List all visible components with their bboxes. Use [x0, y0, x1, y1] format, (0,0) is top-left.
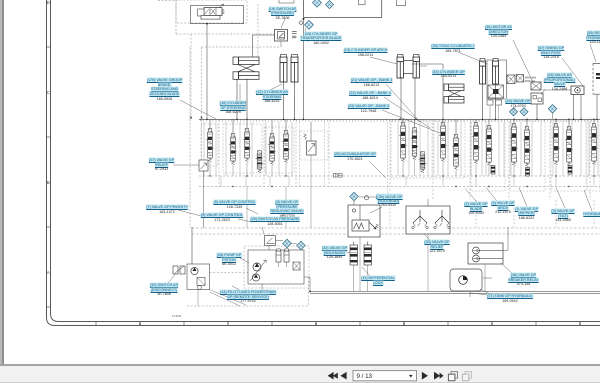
label swing gp 47: [538, 46, 564, 60]
toolbar page number box: [353, 371, 417, 381]
tree valve symbol: [412, 210, 428, 229]
valve spool bank3: [399, 123, 407, 162]
band wire to tank bus: [405, 176, 407, 187]
valve spool bank7 a: [552, 124, 560, 165]
leader label 11: [362, 267, 370, 276]
leader label 12: [270, 84, 282, 90]
motor 36 circle: [575, 87, 581, 93]
frame zone tick bottom: [139, 322, 141, 326]
band wire to tank bus: [220, 176, 222, 187]
oil renewal box partial: [593, 64, 600, 95]
wire down to steering cylinder: [252, 35, 254, 57]
toolbar rotate icon disabled: [462, 372, 471, 381]
hydraulic tank line upper: [310, 290, 600, 292]
pilot bus dashed: [199, 175, 600, 177]
valve 170 solenoid: [198, 9, 205, 16]
valve spool bank4 b: [452, 135, 460, 170]
frame zone tick bottom: [271, 322, 273, 326]
pump circle 1: [253, 263, 261, 271]
wire down to bank4: [442, 64, 444, 119]
label valve gp bank3: [351, 78, 393, 87]
wire motor 36 to bus a: [573, 95, 575, 120]
stub bus to spool: [414, 119, 416, 127]
pump swash arrow: [250, 260, 267, 281]
band internal wire: [460, 122, 462, 176]
lower compensator spool: [491, 166, 495, 175]
stub spool to pilot bus: [285, 163, 287, 176]
section wire to lower bus: [555, 200, 557, 227]
pilot pump: [191, 267, 198, 274]
band wire to tank bus: [288, 176, 290, 187]
band internal wire: [225, 122, 227, 176]
frame zone tick left: [47, 226, 51, 228]
band internal wire: [278, 122, 280, 176]
label valve gp 26v: [377, 195, 402, 200]
bank coupler diamond 2: [520, 108, 528, 116]
pilot dashed vertical b: [201, 47, 203, 160]
arch cylinder center link: [404, 61, 414, 74]
label valve as 28: [544, 73, 576, 92]
leader label 7: [178, 210, 205, 217]
valve section dashed enclosure: [587, 121, 600, 191]
valve bank section divider dashed: [295, 119, 297, 187]
valve spool small bank1: [256, 151, 264, 173]
label cylinder gp 34: [432, 70, 465, 79]
leader label 23: [382, 110, 440, 133]
valve spool bank1 c: [243, 129, 251, 162]
differential lock spool: [350, 242, 358, 292]
band internal wire: [481, 122, 483, 176]
stub bus to spool: [209, 119, 211, 128]
band internal wire: [562, 122, 564, 176]
valve section dashed enclosure: [391, 121, 432, 178]
wire coupler to coupler2: [291, 243, 297, 244]
small coupler: [299, 21, 303, 25]
stub spool to pilot bus: [455, 170, 457, 176]
leader label 14: [232, 286, 240, 290]
label switch as pressure 19: [269, 7, 297, 21]
frame zone tick bottom: [95, 322, 97, 326]
leader label 37b: [470, 293, 498, 296]
frame zone tick bottom: [227, 322, 229, 326]
wire band to lower bus b: [285, 187, 287, 229]
band internal wire: [580, 122, 582, 176]
frame zone tick left: [47, 46, 51, 48]
stub bus to spool: [402, 119, 404, 122]
dashed pilot line to switch lower: [202, 46, 282, 48]
viewer background left strip: [0, 0, 2, 366]
stub spool to pilot bus: [475, 164, 477, 176]
stub spool to pilot bus: [526, 167, 528, 176]
valve spool bank4: [439, 123, 447, 162]
lower pilot bus dashed a: [192, 227, 600, 229]
valve spool bank3 small: [419, 152, 427, 173]
pilot comp b above bus: [496, 100, 502, 105]
wire steering cyl to bus: [236, 80, 238, 120]
quick coupler diamond 2: [326, 1, 334, 9]
leader label 2: [465, 189, 477, 203]
main pressure bus: [199, 118, 600, 120]
pilot dashed down: [308, 277, 310, 306]
orifice block: [517, 75, 524, 83]
leader label 15: [305, 28, 308, 42]
section wire to lower bus: [593, 200, 595, 227]
toolbar next-page button: [422, 372, 428, 380]
frame zone tick bottom: [183, 322, 185, 326]
valve section dashed enclosure: [471, 121, 505, 191]
label cylinder gp 10: [220, 101, 246, 115]
band internal wire: [239, 122, 241, 176]
lower compensator spool: [526, 168, 530, 177]
band wire to tank bus: [245, 176, 247, 187]
label valve gp 27: [149, 158, 174, 172]
leader label 47: [562, 58, 583, 86]
valve as proportional 28 body: [531, 93, 543, 104]
switch 19 inner: [278, 32, 285, 40]
leader label 36: [513, 40, 533, 82]
motor as 36 director body: [571, 86, 584, 95]
dashed stub left of enclosure: [158, 0, 176, 2]
relay valve circle: [473, 247, 503, 254]
bank coupler diamond 1: [510, 108, 518, 116]
cylinder gp 13 arch left: [397, 55, 404, 79]
viewer toolbar: [0, 366, 600, 383]
stub spool to pilot bus: [568, 166, 570, 176]
label pilot lines 14: [220, 290, 276, 304]
top edge component: [279, 0, 294, 3]
band internal wire: [503, 122, 505, 176]
pump accumulator b: [284, 249, 289, 262]
stub bus to spool: [246, 119, 248, 128]
small valve 26v: [364, 196, 368, 200]
leader label 24: [513, 106, 516, 110]
pump small valve: [293, 262, 300, 270]
label switch as 29: [250, 217, 299, 226]
bus hatch ticks: [201, 119, 598, 121]
label valve gp 5: [270, 200, 303, 219]
stub spool to pilot bus: [513, 166, 515, 176]
page box dropdown arrow: [409, 375, 413, 378]
wire to pilot box: [191, 227, 193, 264]
valve gp relief 27 body: [199, 160, 208, 171]
pilot lines gp box: [187, 264, 210, 290]
valve spool bank5 b: [485, 126, 493, 166]
dashed companion b: [324, 122, 326, 186]
valve section dashed enclosure: [201, 124, 218, 166]
leader label 21: [386, 84, 420, 122]
label valve gp 32: [322, 246, 347, 260]
wire cyl 12 to bus: [283, 82, 285, 119]
check valve block: [507, 75, 515, 84]
band internal wire: [408, 122, 410, 176]
band internal wire: [470, 122, 472, 176]
quick coupler diamond 1: [313, 0, 322, 7]
band internal wire: [419, 122, 421, 176]
tree valve symbol: [434, 210, 450, 229]
stub bus to spool: [285, 119, 287, 130]
lower compensator spool: [568, 166, 572, 175]
manifold solenoid block: [397, 0, 406, 6]
pilot filter: [197, 278, 205, 286]
shuttle valve block: [531, 82, 541, 90]
stub bus to spool: [271, 119, 273, 133]
label accumulator gp 25: [334, 152, 376, 161]
tong cylinder enclosure: [487, 60, 507, 99]
stub spool to pilot bus: [246, 162, 248, 176]
leader relief 27: [173, 164, 199, 166]
valve 170 subplate: [201, 16, 220, 20]
valve gp breaker relay 38 box: [468, 243, 503, 264]
leader label 4: [486, 188, 497, 202]
pump accumulator a: [276, 249, 281, 262]
valve spool bank2 a: [268, 134, 276, 165]
leader label 31: [370, 207, 382, 213]
frame zone tick left: [47, 306, 51, 308]
label cylinder as 12: [256, 90, 288, 104]
stub bus to spool: [555, 119, 557, 123]
label valve gp 24: [505, 99, 530, 108]
valve section dashed enclosure: [551, 121, 586, 191]
valve spool bank5 a: [472, 123, 480, 164]
wire band to lower bus c: [310, 176, 312, 228]
wire arch link to bank4: [412, 63, 443, 65]
label tank gp 37: [487, 294, 533, 303]
section wire to lower bus: [475, 200, 477, 227]
hydraulic tank line lower: [310, 293, 600, 295]
leader label 28: [541, 89, 545, 95]
wire prop box to tank line: [359, 237, 361, 291]
label tong cylinders 35: [431, 44, 474, 53]
leader label 32: [340, 250, 350, 253]
valve bank section divider dashed: [432, 119, 434, 200]
frame zone tick left: [47, 136, 51, 138]
dashed pilot line vertical: [175, 0, 177, 34]
band internal wire: [265, 122, 267, 176]
label valve gp 3: [551, 209, 574, 223]
valve spool bank7 b: [565, 127, 573, 166]
dashed wire from top comp to cylinder: [257, 4, 259, 57]
cylinder gp 10 steering: [233, 57, 259, 79]
band internal wire: [447, 122, 449, 176]
pilot dashed vertical a: [190, 34, 192, 119]
valve section dashed enclosure: [265, 127, 294, 173]
wire comp b to bus: [498, 105, 500, 119]
valve section dashed enclosure: [223, 124, 262, 173]
leader label 9: [238, 219, 252, 222]
frame zone tick bottom: [579, 322, 581, 326]
valve bank section divider dashed: [263, 119, 265, 187]
wire from top manifold down: [303, 19, 305, 119]
valve bank section divider dashed: [218, 119, 220, 187]
label cylinder gp 13: [344, 48, 388, 57]
stub bus to spool: [593, 119, 595, 123]
valve group 170 solid box: [191, 6, 244, 24]
valve bank section divider dashed: [389, 119, 391, 227]
pilot dashed to pump box: [210, 272, 249, 274]
drain arrows: [210, 290, 247, 307]
stub bus to spool: [475, 119, 477, 122]
pilot bus junction dots: [209, 175, 210, 176]
leader label 35: [458, 52, 487, 64]
wire relay box to tank line: [484, 264, 486, 291]
wire arch cyl to bus: [400, 77, 402, 119]
switch as disconnect 30: [173, 266, 185, 274]
valve spool bank1 a: [206, 129, 214, 162]
wire motor 36 to bus b: [580, 95, 582, 120]
cylinder as 12 left: [280, 55, 287, 83]
differential lock spool: [364, 242, 372, 292]
band internal wire: [588, 122, 590, 176]
band internal wire: [437, 122, 439, 176]
stub spool to pilot bus: [414, 160, 416, 176]
label motor as 36: [485, 25, 512, 39]
wire relay to bus: [507, 227, 509, 251]
section wire to lower bus: [513, 200, 515, 227]
label valve gp 1: [515, 207, 538, 221]
label valve gp 31: [376, 194, 401, 208]
arrowheads at bus: [190, 116, 203, 119]
valve group 170 directional valve body: [204, 8, 222, 16]
leader label 10: [239, 84, 241, 102]
band internal wire: [552, 122, 554, 176]
valve group 170 dashed enclosure: [176, 0, 247, 23]
prop valve symbol: [352, 205, 378, 231]
label valve gp 9: [201, 213, 243, 222]
valve bank section divider dashed: [328, 119, 330, 187]
band internal wire: [215, 122, 217, 176]
stub spool to pilot bus: [593, 165, 595, 176]
manifold solenoid block: [359, 0, 366, 5]
band internal wire: [427, 122, 429, 176]
label valve group 170: [147, 78, 183, 101]
valve spool bank6 b: [523, 127, 531, 167]
leader label 37a: [480, 289, 492, 295]
swing gp coupler diamond: [548, 105, 556, 113]
label 39 clipped: [586, 31, 600, 45]
label valve gp 8: [213, 200, 255, 209]
toolbar first-page button: [328, 372, 334, 380]
stub bus to spool: [513, 119, 515, 123]
leader label 26v: [359, 196, 377, 198]
band wire to tank bus: [593, 176, 595, 187]
label differential lock 11: [361, 276, 395, 285]
leader label 34: [419, 65, 427, 67]
label valve gp 33: [424, 240, 449, 254]
tank gp hydraulic 37: [450, 269, 482, 291]
valve section dashed enclosure: [300, 131, 328, 160]
wire switch29 to coupler: [276, 240, 284, 242]
switch as pressure 29: [265, 236, 276, 246]
wire band to lower bus a: [246, 187, 248, 229]
band internal wire: [531, 122, 533, 176]
frame zone tick bottom: [315, 322, 317, 326]
leader label 170: [180, 100, 216, 119]
valve spool bank2 b: [282, 131, 290, 163]
label valve gp bank5: [348, 104, 390, 113]
wire tong cyl to bus 2: [495, 84, 497, 119]
coupler diamond switch29: [283, 239, 291, 247]
band internal wire: [597, 122, 599, 176]
schematic border frame inner: [51, 0, 600, 322]
leader label 22: [384, 97, 430, 128]
band internal wire: [571, 122, 573, 176]
stub bus to spool: [488, 119, 490, 125]
pump gp outer dashed box: [244, 246, 309, 288]
wire steering cyl to bus 2: [246, 80, 248, 120]
pump circle 2: [252, 274, 259, 281]
wire tree box to tank line: [427, 234, 429, 291]
wire comp a to bus: [489, 105, 491, 119]
tank return bus dashed: [199, 186, 600, 188]
leader label 29: [262, 227, 264, 234]
band wire to tank bus: [269, 176, 271, 187]
leader label 30: [168, 275, 175, 283]
pump gp piston solid box: [248, 250, 304, 284]
cylinder gp 34: [444, 84, 464, 103]
relay valve circle: [473, 255, 503, 262]
relief valve vertical: [304, 122, 316, 176]
tong cylinder left: [480, 59, 486, 85]
stub spool to pilot bus: [271, 165, 273, 176]
band internal wire: [203, 122, 205, 176]
wire switch 19 to left: [253, 34, 275, 36]
valve section dashed enclosure: [510, 121, 545, 191]
lower pilot bus dashed b: [192, 233, 600, 235]
box text blob: [596, 73, 600, 75]
valve 170 arrow top: [219, 4, 224, 8]
coupler diamond switch29 b: [297, 241, 305, 249]
tong valve block: [488, 85, 504, 98]
valve spool bank6 a: [510, 124, 518, 166]
leader label 1: [519, 188, 527, 207]
label valve gp 4: [491, 201, 514, 215]
cylinder gp 13 arch right: [413, 55, 420, 79]
wire arch cyl to bus 2: [414, 77, 416, 119]
label valve gp 38: [508, 273, 538, 287]
band internal wire: [485, 122, 487, 176]
valve spool bank8 partial: [590, 124, 598, 165]
tank pump: [459, 276, 468, 285]
bus junction dots: [206, 119, 208, 121]
band internal wire: [397, 122, 399, 176]
leader label 19: [281, 19, 285, 28]
dashed pilot line to switch: [176, 33, 281, 35]
band internal wire: [520, 122, 522, 176]
wire prop valve to bus: [536, 104, 538, 119]
switch 19 contact: [279, 33, 285, 38]
label valve gp 7: [146, 205, 188, 214]
label valve gp bank4: [349, 91, 391, 100]
frame zone tick bottom: [491, 322, 493, 326]
toolbar last-page button: [434, 372, 440, 380]
cylinder as 12 right: [291, 55, 298, 83]
band wire to tank bus: [475, 176, 477, 187]
valve bank section divider dashed: [549, 118, 551, 200]
pilot dashed bottom: [187, 305, 309, 307]
label hydraulic clipped: [583, 212, 600, 217]
band internal wire: [291, 122, 293, 176]
frame zone tick bottom: [447, 322, 449, 326]
toolbar rotate icon active: [448, 372, 457, 381]
leader label 3: [556, 188, 565, 209]
band internal wire: [540, 122, 542, 176]
stub spool to pilot bus: [402, 162, 404, 176]
page bottom shadow: [0, 364, 600, 366]
svg-text:9 / 13: 9 / 13: [357, 373, 373, 380]
dashed companion a: [299, 122, 301, 186]
label cylinder gp 15: [301, 32, 342, 46]
tong cylinder right: [493, 59, 499, 85]
